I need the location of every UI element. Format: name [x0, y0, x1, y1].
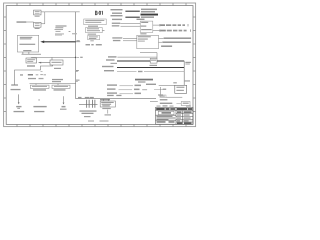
text LVDS EDP	[19, 44, 35, 45]
text block right row1	[141, 9, 157, 11]
labels above rail	[78, 97, 82, 98]
arrowhead down	[63, 103, 65, 105]
wire Y1 to junction	[41, 11, 45, 13]
wire bus row3	[125, 16, 139, 18]
part label XTAL	[56, 25, 67, 26]
tiny component K1	[160, 95, 166, 97]
caption above title block	[157, 106, 161, 107]
wire	[120, 93, 134, 95]
wire to port	[153, 30, 160, 32]
wire main vertical bus	[75, 12, 77, 99]
tiny label	[160, 99, 168, 100]
stub pin	[77, 56, 79, 58]
net label	[80, 57, 83, 58]
label left of rail	[100, 99, 110, 100]
net label row4 left	[112, 19, 122, 20]
wire clock to main bus	[45, 11, 80, 13]
antenna pad	[11, 84, 18, 86]
wire vertical join	[44, 12, 46, 24]
port SYSTEM OUT 1	[160, 30, 166, 32]
net label input row	[112, 25, 120, 26]
text block right row5	[137, 19, 145, 20]
wire	[120, 85, 134, 87]
wire thick bus B	[117, 67, 184, 69]
wire	[123, 40, 137, 42]
label ANT2	[33, 106, 46, 107]
connector symbol below panel	[22, 52, 42, 54]
pin caption short	[161, 46, 172, 47]
net label row3 left	[111, 15, 123, 16]
module M1	[175, 85, 187, 93]
value label Y1	[35, 16, 40, 17]
arrowhead	[40, 41, 44, 44]
net label bracket row	[86, 44, 91, 45]
crystal Y1	[34, 10, 41, 15]
label under antenna	[11, 89, 21, 90]
capacitor C2	[92, 100, 95, 108]
component U10	[30, 85, 49, 88]
tick	[69, 31, 71, 32]
net label	[108, 56, 117, 57]
wire continue	[159, 85, 175, 87]
stub pin	[76, 71, 78, 73]
battery BT1	[50, 60, 63, 65]
label ANT1	[16, 106, 21, 107]
wire bus row1	[125, 10, 139, 12]
wire Y2 to junction	[41, 23, 45, 25]
extra caption	[146, 84, 156, 85]
title cell inner box	[158, 111, 174, 114]
title block header divider	[156, 107, 194, 124]
label row	[160, 103, 173, 104]
header bar dark	[156, 108, 165, 110]
component U2	[26, 58, 37, 63]
row net label	[107, 84, 117, 85]
arrowhead down	[18, 102, 20, 104]
label FB1	[150, 65, 158, 66]
block U6	[140, 21, 153, 32]
wire	[119, 89, 133, 91]
wire drop below block	[107, 110, 109, 114]
text block right row3 bold	[141, 14, 159, 16]
label near bus	[72, 33, 77, 34]
label under U10	[33, 89, 46, 90]
block PANEL box	[17, 35, 38, 52]
stub pin	[76, 81, 78, 83]
net label above stub	[77, 40, 80, 41]
sheet note text bottom	[88, 120, 94, 121]
bottom row cells	[157, 121, 166, 122]
wire from label	[117, 56, 157, 58]
tiny label	[105, 114, 112, 115]
text BRIDGE	[23, 50, 31, 51]
pin caption	[164, 38, 192, 39]
caption between U3 U4	[88, 26, 98, 27]
net name	[135, 93, 142, 95]
wire short	[154, 89, 163, 91]
block U5	[88, 36, 100, 40]
label BLE	[62, 106, 66, 108]
caption above module	[184, 80, 190, 81]
stub	[76, 41, 81, 43]
tick	[41, 70, 43, 73]
wire stub right	[159, 41, 163, 43]
wire	[121, 23, 141, 25]
row net label	[107, 92, 117, 93]
text block right row2	[141, 11, 155, 13]
block U3	[84, 19, 106, 25]
block U7	[137, 35, 159, 48]
net name	[135, 85, 142, 87]
wire stubs to rail	[103, 99, 108, 101]
label under U11	[54, 89, 66, 90]
capacitor C1	[87, 100, 89, 108]
wire	[123, 37, 137, 39]
wire to K2	[176, 103, 181, 105]
wire to port	[153, 24, 160, 26]
block U4	[86, 28, 103, 33]
junction dot	[75, 57, 77, 59]
wire	[117, 71, 137, 73]
pin caption	[162, 42, 191, 43]
caption lines	[80, 110, 97, 111]
filter FB1	[150, 58, 157, 63]
label at wire end	[185, 62, 191, 63]
net name	[134, 89, 140, 91]
wire continue to module	[144, 70, 184, 72]
net label	[104, 70, 114, 71]
net label row2 left	[112, 13, 122, 14]
wire short	[150, 100, 158, 102]
net label	[76, 80, 80, 81]
block label PANEL	[20, 37, 33, 38]
dash	[142, 89, 147, 90]
net label CLK_IN	[17, 21, 27, 23]
wire RF rail	[30, 83, 76, 85]
zone tick marks top and bottom edges	[17, 3, 186, 127]
net label	[76, 70, 79, 71]
caption below U4	[88, 34, 97, 35]
small caption row	[28, 78, 36, 79]
net name	[138, 71, 143, 72]
component U11	[52, 85, 70, 88]
text block right row4	[141, 16, 154, 18]
wire stub to U10	[35, 84, 37, 86]
text block mid	[52, 79, 63, 80]
group title SERIAL	[135, 79, 153, 81]
net label	[27, 65, 35, 66]
caption below U6	[140, 33, 146, 34]
net label	[102, 66, 114, 67]
wire BLE drop	[63, 96, 65, 103]
port NET OUT 1	[160, 24, 165, 26]
border frame inner	[6, 6, 193, 125]
value label Y2	[35, 28, 40, 29]
block U8	[100, 101, 115, 107]
small component K2	[181, 102, 190, 106]
wire thick bus A	[117, 60, 184, 62]
wire across	[31, 57, 76, 60]
right column cells	[177, 111, 182, 112]
row net label	[107, 88, 116, 89]
wire	[121, 25, 141, 27]
wire vertical to module	[183, 61, 185, 85]
refdes label	[111, 63, 118, 64]
caption under block	[102, 108, 111, 109]
wire arrow into battery	[39, 62, 51, 64]
net label	[113, 40, 121, 41]
wire stub to U11	[57, 84, 59, 86]
net label row1 left	[111, 9, 123, 10]
label caption	[34, 111, 44, 112]
wire bottom rail	[76, 98, 156, 100]
wire stub right	[159, 37, 164, 39]
tiny mark	[38, 99, 40, 100]
wire L	[140, 53, 157, 59]
measurement row	[20, 74, 23, 75]
wire through caps	[79, 103, 98, 105]
wire vertical right	[161, 87, 183, 97]
tiny tail	[103, 30, 105, 31]
wire battery to antenna feed	[15, 65, 53, 85]
net label	[112, 37, 122, 38]
net label input row	[112, 23, 121, 24]
sheet title B-01	[95, 11, 103, 15]
wire panel bus arrow	[43, 41, 75, 43]
small labels	[158, 94, 163, 95]
label under battery	[54, 68, 61, 69]
title block outline	[156, 107, 194, 124]
net label	[106, 59, 115, 60]
crystal Y2	[34, 22, 41, 27]
title text lines	[157, 116, 173, 117]
wire antenna drop	[18, 94, 20, 103]
border frame outer	[4, 3, 196, 127]
zone tick marks left and right edges	[4, 17, 196, 112]
tiny label below U5	[90, 40, 94, 41]
label caption	[14, 111, 25, 112]
wire	[27, 21, 34, 23]
